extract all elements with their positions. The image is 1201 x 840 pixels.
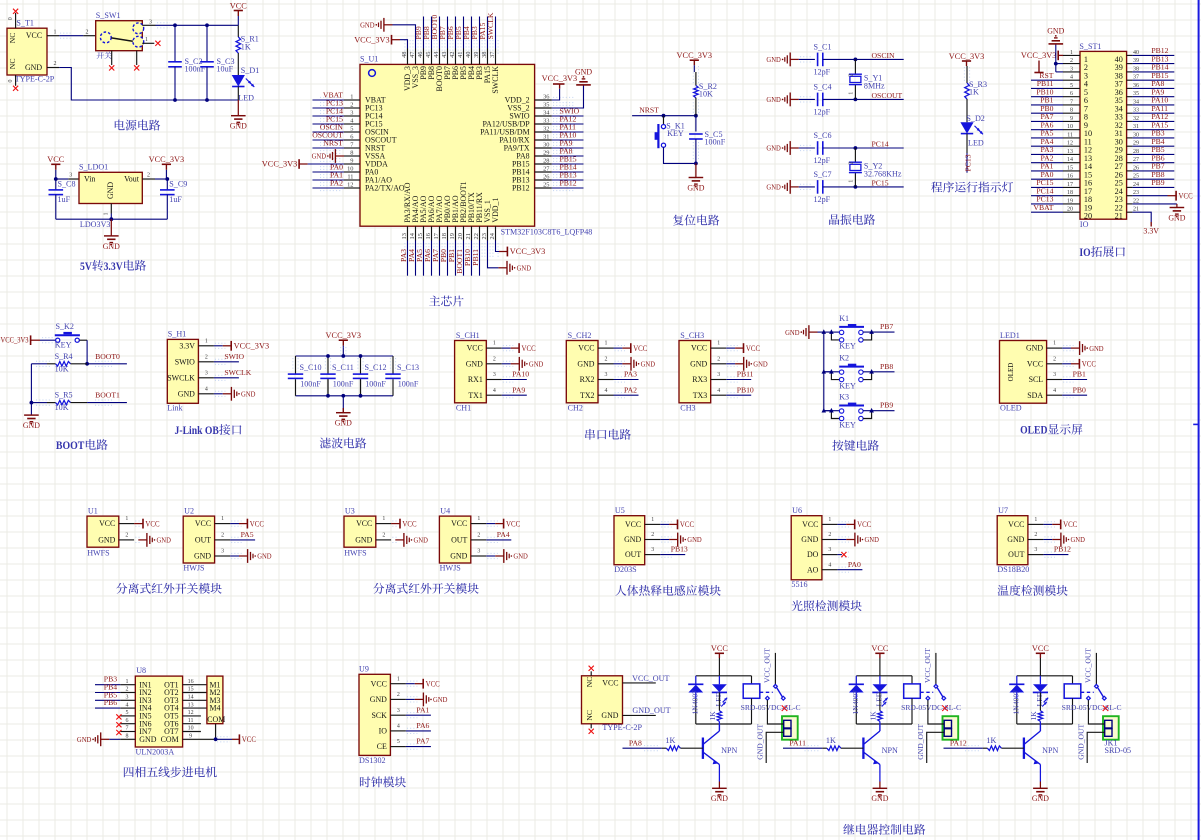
svg-text:PB11: PB11 bbox=[737, 370, 754, 379]
svg-text:12pF: 12pF bbox=[814, 107, 831, 116]
svg-text:5V: 5V bbox=[80, 259, 92, 273]
svg-text:NC: NC bbox=[8, 58, 17, 69]
svg-text:12pF: 12pF bbox=[814, 156, 831, 165]
svg-text:GND: GND bbox=[766, 95, 781, 104]
svg-text:47: 47 bbox=[409, 51, 416, 58]
svg-text:3: 3 bbox=[477, 549, 480, 555]
svg-text:D203S: D203S bbox=[614, 565, 637, 574]
svg-text:2: 2 bbox=[493, 356, 496, 362]
svg-text:14: 14 bbox=[409, 232, 416, 239]
svg-text:GND: GND bbox=[766, 144, 781, 153]
svg-text:GND_OUT: GND_OUT bbox=[916, 723, 925, 759]
svg-text:10: 10 bbox=[188, 726, 194, 732]
svg-text:100nF: 100nF bbox=[333, 379, 354, 388]
svg-text:PB12: PB12 bbox=[1054, 545, 1071, 554]
svg-text:GND: GND bbox=[529, 360, 544, 369]
svg-text:GND: GND bbox=[360, 21, 375, 30]
svg-text:S_ST1: S_ST1 bbox=[1079, 42, 1101, 51]
svg-text:J-Link OB: J-Link OB bbox=[175, 423, 220, 437]
svg-text:S_D1: S_D1 bbox=[241, 66, 259, 75]
svg-text:1: 1 bbox=[848, 180, 855, 183]
svg-text:1K: 1K bbox=[969, 88, 979, 97]
svg-text:2: 2 bbox=[397, 692, 400, 698]
svg-text:K1: K1 bbox=[839, 314, 849, 323]
svg-text:RX2: RX2 bbox=[580, 375, 595, 384]
svg-text:1N4007: 1N4007 bbox=[851, 690, 860, 715]
svg-text:48: 48 bbox=[401, 52, 408, 58]
svg-text:VCC: VCC bbox=[451, 519, 467, 528]
svg-text:VCC: VCC bbox=[1063, 520, 1078, 529]
svg-text:GND: GND bbox=[601, 711, 618, 720]
svg-text:1: 1 bbox=[54, 29, 57, 35]
svg-text:15: 15 bbox=[417, 233, 424, 239]
svg-text:GND: GND bbox=[178, 389, 195, 398]
svg-text:OSCOUT: OSCOUT bbox=[872, 91, 903, 100]
svg-text:GND: GND bbox=[753, 360, 768, 369]
svg-text:GND: GND bbox=[335, 419, 352, 428]
svg-text:GND: GND bbox=[103, 242, 120, 251]
svg-text:1: 1 bbox=[848, 92, 855, 95]
svg-text:1K: 1K bbox=[665, 736, 675, 745]
svg-text:100nF: 100nF bbox=[705, 138, 726, 147]
svg-text:VCC_3V3: VCC_3V3 bbox=[1021, 51, 1057, 60]
svg-text:S_K2: S_K2 bbox=[56, 322, 74, 331]
svg-text:1K: 1K bbox=[986, 736, 996, 745]
svg-text:21: 21 bbox=[1115, 212, 1123, 221]
svg-text:LED1: LED1 bbox=[1000, 331, 1020, 340]
svg-text:VCC: VCC bbox=[1179, 191, 1194, 200]
svg-text:OLED: OLED bbox=[1020, 423, 1047, 437]
svg-text:BOOT: BOOT bbox=[56, 438, 85, 452]
svg-text:1: 1 bbox=[493, 341, 496, 347]
svg-text:GND: GND bbox=[230, 122, 247, 131]
svg-text:S_CH2: S_CH2 bbox=[568, 331, 592, 340]
svg-text:KEY: KEY bbox=[55, 341, 72, 350]
svg-text:GND: GND bbox=[466, 359, 483, 368]
svg-text:100nF: 100nF bbox=[365, 379, 386, 388]
svg-text:5: 5 bbox=[350, 125, 353, 132]
svg-text:SWCLK: SWCLK bbox=[224, 368, 251, 377]
svg-text:COM: COM bbox=[161, 735, 179, 744]
svg-text:DS1302: DS1302 bbox=[359, 756, 386, 765]
svg-text:2: 2 bbox=[717, 356, 720, 362]
svg-text:SRD-05VDC-SL-C: SRD-05VDC-SL-C bbox=[901, 703, 961, 712]
svg-text:PC13: PC13 bbox=[964, 154, 973, 171]
svg-text:2: 2 bbox=[477, 533, 480, 539]
svg-text:VCC: VCC bbox=[625, 520, 641, 529]
svg-text:2: 2 bbox=[126, 687, 129, 693]
svg-text:VCC_3V3: VCC_3V3 bbox=[149, 155, 185, 164]
svg-text:GND: GND bbox=[1007, 535, 1024, 544]
svg-text:13: 13 bbox=[188, 702, 194, 708]
svg-text:43: 43 bbox=[441, 52, 448, 58]
svg-text:PA9: PA9 bbox=[512, 385, 525, 394]
svg-text:4: 4 bbox=[493, 388, 496, 394]
svg-text:U3: U3 bbox=[345, 506, 355, 515]
svg-text:S_C9: S_C9 bbox=[169, 179, 187, 188]
svg-text:S_LDO1: S_LDO1 bbox=[79, 163, 108, 172]
svg-text:GND: GND bbox=[785, 328, 800, 337]
svg-text:1: 1 bbox=[382, 516, 385, 522]
svg-text:KEY: KEY bbox=[839, 342, 856, 351]
svg-text:VCC: VCC bbox=[242, 735, 257, 744]
svg-text:VCC_3V3: VCC_3V3 bbox=[234, 342, 270, 351]
svg-text:GND_OUT: GND_OUT bbox=[632, 706, 670, 715]
svg-text:23: 23 bbox=[481, 233, 488, 239]
svg-text:PA8: PA8 bbox=[629, 738, 642, 747]
svg-text:VCC: VCC bbox=[99, 519, 115, 528]
svg-text:VCC: VCC bbox=[195, 519, 211, 528]
svg-text:DO: DO bbox=[807, 550, 819, 559]
svg-text:0: 0 bbox=[8, 17, 14, 20]
svg-text:20: 20 bbox=[457, 233, 464, 239]
svg-text:40: 40 bbox=[465, 52, 472, 58]
svg-text:CH1: CH1 bbox=[456, 403, 471, 412]
svg-text:OLED: OLED bbox=[1000, 403, 1022, 412]
svg-text:HWJS: HWJS bbox=[183, 563, 204, 572]
svg-text:2: 2 bbox=[828, 532, 831, 538]
svg-text:S_R4: S_R4 bbox=[55, 352, 73, 361]
svg-text:6: 6 bbox=[126, 718, 129, 724]
svg-text:100nF: 100nF bbox=[398, 379, 419, 388]
svg-text:Vin: Vin bbox=[84, 175, 95, 184]
svg-text:VCC_3V3: VCC_3V3 bbox=[510, 247, 546, 256]
svg-text:1: 1 bbox=[1034, 517, 1037, 523]
svg-text:GND: GND bbox=[139, 735, 156, 744]
svg-text:VCC: VCC bbox=[871, 644, 889, 653]
svg-text:VCC: VCC bbox=[1032, 644, 1050, 653]
svg-text:2: 2 bbox=[125, 533, 128, 539]
svg-text:2: 2 bbox=[350, 101, 353, 108]
svg-text:VCC: VCC bbox=[578, 344, 594, 353]
svg-text:36: 36 bbox=[543, 93, 549, 100]
svg-text:16: 16 bbox=[425, 233, 432, 239]
svg-text:GND_OUT: GND_OUT bbox=[756, 723, 765, 759]
svg-text:S_R5: S_R5 bbox=[55, 391, 73, 400]
svg-text:10: 10 bbox=[347, 165, 353, 172]
svg-text:14: 14 bbox=[188, 695, 194, 701]
svg-text:VCC: VCC bbox=[506, 519, 521, 528]
svg-text:PB13: PB13 bbox=[671, 545, 688, 554]
svg-text:VCC: VCC bbox=[402, 519, 417, 528]
svg-text:34: 34 bbox=[543, 109, 550, 116]
svg-text:IO: IO bbox=[1080, 220, 1089, 229]
svg-text:21: 21 bbox=[465, 233, 472, 239]
svg-text:LDO3V3: LDO3V3 bbox=[80, 220, 111, 229]
svg-text:3: 3 bbox=[149, 19, 152, 25]
svg-text:VCC_3V3: VCC_3V3 bbox=[354, 35, 390, 44]
svg-text:S_C12: S_C12 bbox=[365, 363, 387, 372]
svg-text:S_C4: S_C4 bbox=[814, 83, 832, 92]
svg-text:LED: LED bbox=[714, 691, 723, 706]
svg-text:7: 7 bbox=[126, 726, 129, 732]
svg-text:PA12: PA12 bbox=[950, 738, 967, 747]
svg-text:GND: GND bbox=[766, 55, 781, 64]
svg-text:PB11: PB11 bbox=[471, 249, 480, 266]
svg-text:1N4007: 1N4007 bbox=[691, 690, 700, 715]
svg-text:S_C7: S_C7 bbox=[814, 170, 832, 179]
svg-text:3: 3 bbox=[493, 372, 496, 378]
svg-text:1: 1 bbox=[126, 679, 129, 685]
svg-text:1uF: 1uF bbox=[169, 195, 182, 204]
svg-text:PA10: PA10 bbox=[512, 370, 529, 379]
svg-text:VCC: VCC bbox=[230, 1, 248, 10]
svg-text:1: 1 bbox=[125, 516, 128, 522]
svg-text:VCC: VCC bbox=[250, 519, 265, 528]
svg-text:PA7: PA7 bbox=[416, 737, 429, 746]
svg-text:0: 0 bbox=[8, 80, 14, 83]
svg-text:18: 18 bbox=[441, 233, 448, 239]
svg-text:GND: GND bbox=[641, 360, 656, 369]
svg-text:K2: K2 bbox=[839, 354, 849, 363]
svg-text:GND: GND bbox=[1032, 794, 1049, 803]
svg-text:VCC: VCC bbox=[371, 679, 387, 688]
svg-text:32: 32 bbox=[543, 125, 549, 132]
svg-text:4: 4 bbox=[828, 562, 831, 568]
svg-text:VCC: VCC bbox=[145, 519, 160, 528]
svg-text:GND: GND bbox=[575, 67, 592, 76]
svg-text:19: 19 bbox=[449, 233, 456, 239]
svg-text:GND: GND bbox=[711, 794, 728, 803]
svg-text:3.3V: 3.3V bbox=[179, 341, 195, 350]
svg-text:HWJS: HWJS bbox=[440, 563, 461, 572]
svg-text:VCC_OUT: VCC_OUT bbox=[763, 648, 772, 683]
svg-text:GND: GND bbox=[23, 421, 40, 430]
svg-text:1: 1 bbox=[205, 338, 208, 344]
svg-text:GND: GND bbox=[1071, 535, 1086, 544]
svg-text:OUT: OUT bbox=[451, 536, 467, 545]
svg-text:U1: U1 bbox=[88, 506, 98, 515]
svg-text:VCC: VCC bbox=[467, 344, 483, 353]
svg-text:RX3: RX3 bbox=[692, 375, 707, 384]
svg-text:3: 3 bbox=[205, 370, 208, 376]
svg-text:S_C10: S_C10 bbox=[300, 363, 322, 372]
svg-text:STM32F103C8T6_LQFP48: STM32F103C8T6_LQFP48 bbox=[501, 228, 593, 237]
svg-text:VCC: VCC bbox=[746, 344, 761, 353]
svg-text:1: 1 bbox=[1053, 341, 1056, 347]
svg-text:12pF: 12pF bbox=[814, 195, 831, 204]
svg-text:41: 41 bbox=[457, 52, 464, 58]
svg-text:33: 33 bbox=[543, 117, 549, 124]
svg-text:1: 1 bbox=[221, 516, 224, 522]
svg-text:PB1: PB1 bbox=[1073, 370, 1086, 379]
svg-text:NPN: NPN bbox=[882, 746, 898, 755]
svg-text:VCC_3V3: VCC_3V3 bbox=[677, 51, 713, 60]
svg-text:2: 2 bbox=[1053, 356, 1056, 362]
svg-text:S_D2: S_D2 bbox=[966, 114, 984, 123]
svg-text:GND_OUT: GND_OUT bbox=[1077, 723, 1086, 759]
svg-text:KEY: KEY bbox=[667, 129, 684, 138]
svg-text:NRST: NRST bbox=[639, 106, 659, 115]
svg-text:GND: GND bbox=[370, 695, 387, 704]
svg-text:1K: 1K bbox=[241, 43, 251, 52]
svg-text:PA3: PA3 bbox=[624, 370, 637, 379]
svg-text:10K: 10K bbox=[55, 365, 69, 374]
svg-text:VCC: VCC bbox=[1082, 360, 1097, 369]
svg-text:5: 5 bbox=[126, 710, 129, 716]
svg-text:30: 30 bbox=[543, 141, 549, 148]
svg-text:2: 2 bbox=[205, 354, 208, 360]
svg-text:PA1: PA1 bbox=[416, 705, 429, 714]
svg-text:1: 1 bbox=[350, 93, 353, 100]
svg-text:3.3V: 3.3V bbox=[1143, 227, 1159, 236]
svg-text:GND: GND bbox=[1168, 213, 1185, 222]
svg-text:28: 28 bbox=[543, 157, 549, 164]
svg-text:SWIO: SWIO bbox=[224, 352, 244, 361]
svg-text:2: 2 bbox=[382, 533, 385, 539]
svg-text:45: 45 bbox=[425, 52, 432, 58]
svg-text:VCC_OUT: VCC_OUT bbox=[923, 648, 932, 683]
svg-text:100nF: 100nF bbox=[300, 379, 321, 388]
svg-text:35: 35 bbox=[543, 101, 549, 108]
svg-text:GND: GND bbox=[312, 152, 327, 161]
svg-text:SCK: SCK bbox=[372, 711, 388, 720]
svg-text:3: 3 bbox=[651, 547, 654, 553]
svg-text:10uF: 10uF bbox=[217, 65, 234, 74]
svg-text:9: 9 bbox=[350, 157, 353, 164]
svg-text:1: 1 bbox=[145, 37, 148, 43]
svg-text:GND: GND bbox=[1089, 344, 1104, 353]
svg-text:GND: GND bbox=[433, 695, 448, 704]
svg-text:GND: GND bbox=[766, 183, 781, 192]
svg-text:COM: COM bbox=[207, 715, 225, 724]
svg-text:BOOT1: BOOT1 bbox=[95, 391, 120, 400]
svg-text:VCC: VCC bbox=[691, 344, 707, 353]
svg-text:1K: 1K bbox=[868, 711, 877, 721]
svg-text:VCC_3V3: VCC_3V3 bbox=[262, 160, 298, 169]
svg-text:1: 1 bbox=[397, 676, 400, 682]
svg-text:5: 5 bbox=[397, 739, 400, 745]
svg-text:10K: 10K bbox=[699, 90, 713, 99]
svg-text:GND: GND bbox=[241, 390, 256, 399]
svg-text:S_C11: S_C11 bbox=[332, 363, 354, 372]
svg-text:VCC: VCC bbox=[26, 31, 42, 40]
svg-text:12: 12 bbox=[347, 181, 353, 188]
svg-text:VBAT: VBAT bbox=[1033, 203, 1053, 212]
svg-text:PA2: PA2 bbox=[624, 385, 637, 394]
svg-text:VCC: VCC bbox=[1027, 359, 1043, 368]
svg-text:GND: GND bbox=[77, 735, 92, 744]
svg-text:VCC: VCC bbox=[426, 679, 441, 688]
svg-text:PB0: PB0 bbox=[1073, 385, 1086, 394]
svg-text:PB8: PB8 bbox=[880, 362, 893, 371]
svg-text:15: 15 bbox=[188, 687, 194, 693]
svg-text:1K: 1K bbox=[826, 736, 836, 745]
svg-text:2: 2 bbox=[54, 61, 57, 67]
svg-text:29: 29 bbox=[543, 149, 549, 156]
svg-text:PA2/TX/AO: PA2/TX/AO bbox=[365, 184, 405, 193]
svg-text:TX1: TX1 bbox=[468, 391, 483, 400]
svg-text:GND: GND bbox=[257, 552, 272, 561]
svg-text:S_CH3: S_CH3 bbox=[680, 331, 704, 340]
svg-text:2: 2 bbox=[651, 532, 654, 538]
svg-text:13: 13 bbox=[401, 233, 408, 239]
svg-text:1: 1 bbox=[828, 517, 831, 523]
svg-text:GND: GND bbox=[801, 535, 818, 544]
svg-text:PB12: PB12 bbox=[512, 184, 530, 193]
svg-text:25: 25 bbox=[543, 181, 549, 188]
svg-text:11: 11 bbox=[188, 718, 194, 724]
svg-text:DS18B20: DS18B20 bbox=[997, 565, 1029, 574]
svg-text:S_CH1: S_CH1 bbox=[456, 331, 480, 340]
svg-text:PB12: PB12 bbox=[560, 179, 577, 188]
svg-text:S_H1: S_H1 bbox=[168, 330, 186, 339]
svg-text:3: 3 bbox=[1053, 372, 1056, 378]
svg-text:3: 3 bbox=[350, 109, 353, 116]
svg-text:LED: LED bbox=[1035, 691, 1044, 706]
svg-text:16: 16 bbox=[188, 679, 194, 685]
svg-text:42: 42 bbox=[449, 52, 456, 58]
svg-text:1: 1 bbox=[651, 517, 654, 523]
svg-text:39: 39 bbox=[473, 52, 480, 58]
svg-text:SDA: SDA bbox=[1027, 391, 1043, 400]
svg-text:Vout: Vout bbox=[124, 175, 140, 184]
svg-text:4: 4 bbox=[1053, 388, 1056, 394]
svg-text:TYPE-C-2P: TYPE-C-2P bbox=[602, 723, 642, 732]
svg-text:GND: GND bbox=[513, 552, 528, 561]
svg-text:VCC_OUT: VCC_OUT bbox=[1084, 648, 1093, 683]
svg-text:4: 4 bbox=[205, 386, 208, 392]
svg-text:NC: NC bbox=[585, 676, 594, 687]
svg-text:2: 2 bbox=[147, 173, 150, 179]
svg-text:OLED: OLED bbox=[1007, 363, 1015, 382]
svg-text:24: 24 bbox=[489, 232, 496, 239]
svg-text:NPN: NPN bbox=[1042, 746, 1058, 755]
svg-text:Link: Link bbox=[167, 404, 183, 413]
svg-text:3: 3 bbox=[221, 549, 224, 555]
svg-text:VCC_3V3: VCC_3V3 bbox=[1, 336, 29, 345]
svg-text:VCC_3V3: VCC_3V3 bbox=[542, 74, 578, 83]
svg-text:GND: GND bbox=[577, 359, 594, 368]
svg-text:GND: GND bbox=[194, 552, 211, 561]
svg-text:TX3: TX3 bbox=[693, 391, 708, 400]
svg-text:1: 1 bbox=[104, 213, 110, 216]
svg-text:2: 2 bbox=[848, 74, 855, 77]
svg-text:GND: GND bbox=[687, 183, 704, 192]
svg-text:38: 38 bbox=[481, 52, 488, 58]
svg-text:OUT: OUT bbox=[195, 536, 211, 545]
svg-text:5516: 5516 bbox=[791, 580, 807, 589]
svg-text:GND: GND bbox=[25, 63, 42, 72]
svg-text:2: 2 bbox=[848, 162, 855, 165]
svg-text:PB9: PB9 bbox=[1151, 178, 1164, 187]
svg-text:GND: GND bbox=[450, 552, 467, 561]
svg-text:K3: K3 bbox=[839, 393, 849, 402]
svg-text:SWIO: SWIO bbox=[175, 357, 195, 366]
svg-text:VCC_3V3: VCC_3V3 bbox=[949, 52, 985, 61]
svg-text:NPN: NPN bbox=[721, 746, 737, 755]
svg-text:S_C13: S_C13 bbox=[397, 363, 419, 372]
svg-text:GND: GND bbox=[98, 536, 115, 545]
svg-text:IO: IO bbox=[1079, 245, 1090, 259]
svg-text:27: 27 bbox=[543, 165, 550, 172]
svg-text:IO: IO bbox=[379, 727, 388, 736]
svg-text:GND: GND bbox=[355, 536, 372, 545]
svg-text:AO: AO bbox=[807, 565, 819, 574]
svg-text:1: 1 bbox=[477, 516, 480, 522]
svg-text:GND: GND bbox=[1026, 344, 1043, 353]
svg-text:TX2: TX2 bbox=[580, 391, 595, 400]
svg-text:3: 3 bbox=[69, 173, 72, 179]
svg-text:3: 3 bbox=[828, 547, 831, 553]
svg-text:GND: GND bbox=[106, 182, 115, 199]
svg-text:PB7: PB7 bbox=[880, 322, 893, 331]
svg-text:8MHz: 8MHz bbox=[864, 82, 885, 91]
svg-text:1: 1 bbox=[605, 341, 608, 347]
svg-text:SRD-05: SRD-05 bbox=[1105, 746, 1132, 755]
svg-text:U6: U6 bbox=[792, 506, 802, 515]
svg-text:GND: GND bbox=[624, 535, 641, 544]
